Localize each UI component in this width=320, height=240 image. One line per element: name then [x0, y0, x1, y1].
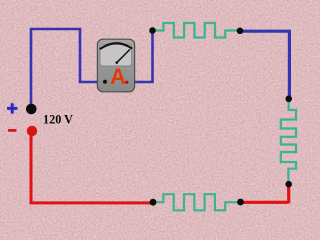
ammeter left terminal	[103, 80, 107, 84]
ammeter right terminal	[125, 81, 128, 84]
wire red from - terminal down and along bottom to bottom resistor	[31, 130, 153, 203]
resistor R1 (top)	[153, 23, 241, 38]
wire blue from top resistor to right resistor	[240, 31, 289, 99]
meter scale arc	[100, 43, 131, 49]
wire red from bottom resistor to right resistor	[241, 183, 289, 203]
wire blue from + terminal up and over to ammeter	[31, 29, 101, 112]
meter needle	[117, 50, 130, 63]
resistor R3 (bottom)	[153, 194, 241, 210]
plus sign label	[7, 103, 17, 113]
node D (right resistor bottom)	[285, 181, 292, 188]
battery + terminal	[26, 104, 37, 115]
minus sign label	[8, 129, 16, 132]
node F (bottom resistor right)	[237, 199, 244, 206]
svg-text:120 V: 120 V	[43, 113, 73, 127]
battery - terminal	[27, 126, 37, 136]
node B (top resistor right)	[237, 28, 244, 35]
ammeter U1 body	[97, 39, 134, 92]
resistor R2 (right, vertical)	[281, 99, 296, 185]
node A (top resistor left)	[149, 27, 156, 34]
svg-text:A: A	[110, 64, 126, 89]
node E (bottom resistor left)	[150, 199, 157, 206]
node C (right resistor top)	[285, 96, 292, 103]
wire blue from ammeter right terminal to top resistor node	[126, 31, 153, 83]
